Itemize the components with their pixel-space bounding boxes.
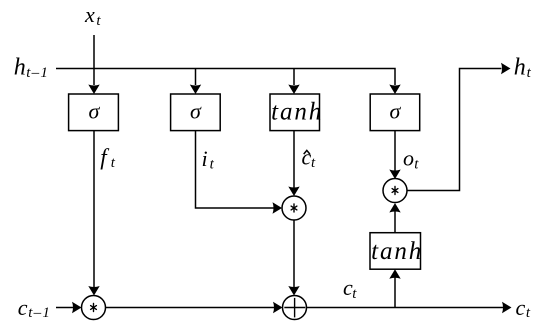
svg-text:c: c: [516, 295, 526, 320]
multiplier X1 (f*c): [82, 296, 106, 320]
wire branch to tanh U3: [288, 69, 299, 95]
node c-hat_t label: [302, 145, 317, 172]
svg-text:o: o: [403, 146, 414, 171]
multiplier X3 (o*tanh): [383, 179, 407, 203]
svg-text:t–1: t–1: [28, 305, 51, 321]
node c_t label (output): [516, 295, 531, 321]
wire X1 to adder A1: [106, 302, 283, 313]
node h_t label: [514, 55, 532, 82]
svg-text:σ: σ: [390, 99, 402, 124]
svg-text:h: h: [514, 55, 526, 81]
node h_t-1 label: [14, 55, 49, 82]
svg-text:tanh: tanh: [271, 99, 323, 126]
svg-text:h: h: [14, 55, 26, 81]
node x_t label: [84, 2, 101, 29]
svg-text:c: c: [302, 145, 312, 170]
adder A1: [283, 296, 307, 320]
wire c_t-1 input to multiplier X1: [56, 302, 82, 313]
svg-text:i: i: [202, 146, 208, 171]
gate tanh U5 (cell output squash): [370, 233, 423, 270]
wire X2 to adder A1: [288, 220, 299, 296]
wire c line branch to U5: [389, 269, 400, 307]
svg-text:tanh: tanh: [371, 238, 423, 265]
wire h_t-1 horizontal bus to sigma U4: [56, 69, 401, 95]
wire h_t output from X3: [407, 63, 511, 191]
node c_t label (mid): [343, 275, 357, 302]
svg-text:σ: σ: [89, 99, 101, 124]
wire f_t from U1 to multiplier X1: [88, 131, 99, 296]
svg-text:c: c: [18, 295, 28, 320]
node f_t label: [100, 145, 116, 172]
gate sigma U4 (output gate): [370, 94, 420, 131]
node c_t-1 label: [18, 295, 51, 321]
wire c_t output from A1: [307, 302, 512, 313]
wire c-hat_t from U3 to multiplier X2: [288, 131, 299, 196]
svg-text:t–1: t–1: [26, 65, 49, 81]
gate sigma U2 (input gate): [171, 94, 221, 131]
wire o_t from U4 to multiplier X3: [389, 131, 400, 179]
wire i_t from U2 to multiplier X2: [196, 131, 283, 214]
node o_t label: [403, 146, 419, 173]
gate tanh U3 (candidate): [270, 94, 323, 131]
multiplier X2 (i*chat): [282, 196, 306, 220]
wire U5 to X3: [389, 203, 400, 233]
svg-text:x: x: [84, 2, 95, 27]
gate sigma U1 (forget gate): [69, 94, 119, 131]
node i_t label: [202, 146, 215, 173]
wire x_t input to sigma U1: [88, 35, 99, 94]
wire branch to sigma U2: [190, 69, 201, 95]
svg-text:σ: σ: [190, 99, 202, 124]
